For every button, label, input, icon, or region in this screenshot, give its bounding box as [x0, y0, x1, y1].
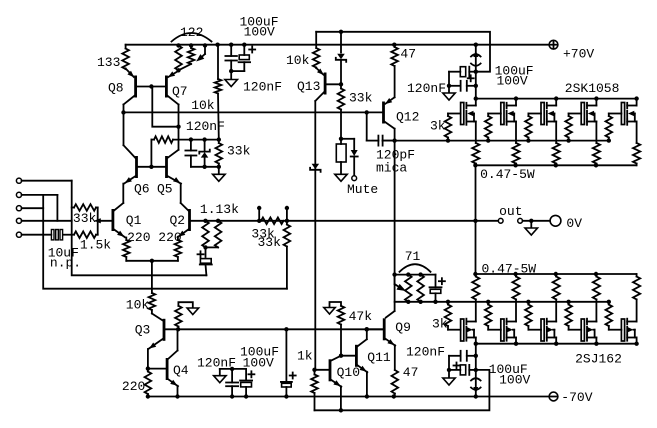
connector arrow +70V [473, 51, 478, 58]
test point stub B [286, 210, 288, 221]
svg-text:Q5: Q5 [157, 181, 173, 196]
svg-text:Mute: Mute [347, 182, 378, 197]
node -70V rail [474, 394, 478, 398]
wire J2 to base line [56, 195, 58, 221]
node Q10 emitter outer rail [339, 408, 343, 412]
node BL 120nF top [230, 367, 234, 371]
connector arrow -70V [473, 387, 478, 394]
wire bottom drain bus [476, 343, 637, 345]
input terminal J5 [16, 232, 21, 237]
svg-text:Q1: Q1 [126, 213, 142, 228]
resistor 3k gate top #3 [527, 114, 529, 117]
node bias gnd [217, 165, 221, 169]
node 10k bias top [215, 43, 219, 47]
svg-text:+70V: +70V [563, 47, 594, 62]
node Q11 collector [365, 327, 369, 331]
svg-text:3k: 3k [430, 119, 446, 134]
test point stub A [258, 210, 260, 221]
capacitor 10uF n.p. [51, 230, 54, 240]
node Q10 base [312, 368, 316, 372]
mosfet 2SJ162 #4 [581, 319, 584, 341]
resistor 10k tail [151, 261, 153, 293]
node fb 2 [216, 219, 220, 223]
wire bias line Q3-Q9 [165, 328, 383, 330]
transistor Q1 [112, 209, 115, 231]
transistor Q9 [383, 318, 386, 340]
svg-text:1k: 1k [297, 349, 313, 364]
wire TR bypass gnd link [448, 72, 450, 93]
wire output column [475, 165, 477, 274]
ground mute [340, 162, 342, 174]
node Q13 base [339, 82, 343, 86]
node fb 33k right [285, 219, 289, 223]
svg-text:Q3: Q3 [135, 323, 151, 338]
node 122 mid [189, 43, 193, 47]
capacitor 120pF [366, 112, 368, 140]
transistor Q12 [382, 102, 385, 124]
node TL bypass [229, 69, 233, 73]
node bias cap top2 [284, 327, 288, 331]
resistor 1.13k b [215, 221, 222, 248]
resistor 0.47-5W top #2 [512, 143, 519, 164]
capacitor 120nF BR [449, 355, 461, 357]
resistor 3k gate top #1 [447, 114, 449, 117]
ground BR bypass [443, 378, 455, 385]
resistor 0.47-5W bottom #2 [515, 274, 517, 277]
node gate bus bottom #4 [566, 300, 570, 304]
svg-text:10k: 10k [286, 53, 310, 68]
node mute [339, 137, 343, 141]
wire Q12 collector drop [394, 129, 396, 311]
node 71 r2 top [418, 272, 422, 276]
resistor 220 Q4 [147, 369, 149, 372]
transistor Q2 [188, 209, 191, 231]
node gate bus bottom #2 [486, 300, 490, 304]
wire pot right side [97, 208, 99, 235]
wire Q11 collector [366, 329, 368, 339]
node gate bus bottom #1 [446, 300, 450, 304]
wire TL bypass join [231, 70, 244, 72]
resistor 33k feedback series [261, 218, 284, 225]
node Q9 base [365, 327, 369, 331]
wire top +70V rail [126, 44, 550, 46]
input terminal J1 [16, 178, 21, 183]
node Q12 base pickoff [365, 110, 369, 114]
node drain bus #2 [514, 96, 518, 100]
svg-text:-70V: -70V [561, 390, 592, 405]
wire bias bottom [191, 166, 219, 168]
resistor 0.47-5W bottom #4 [595, 274, 597, 277]
node mirror sense [176, 125, 180, 129]
ground BL bypass [219, 369, 221, 376]
svg-text:n.p.: n.p. [50, 256, 81, 271]
out terminal b [518, 218, 523, 223]
transistor Q13 [324, 73, 327, 95]
resistor 71 pot element [405, 275, 412, 302]
node drain bus bottom #1 [474, 342, 478, 346]
node source bus bottom #2 [513, 272, 517, 276]
resistor 33k feedback shunt [286, 221, 288, 225]
node source bus bottom #4 [594, 272, 598, 276]
wire Q5 collector riser [178, 127, 180, 150]
wire base bias riser [150, 140, 152, 167]
svg-text:33k: 33k [73, 211, 97, 226]
wire Q12 base line [124, 111, 383, 113]
zener D4 collector line [312, 164, 320, 170]
mosfet 2SK1058 #4 [581, 103, 584, 125]
mosfet 2SK1058 #2 [501, 103, 504, 125]
node Q3 base [176, 327, 180, 331]
transistor Q10 [329, 359, 332, 381]
resistor 71 fixed [417, 275, 424, 302]
wire Q13 collector line [314, 101, 316, 370]
mosfet 2SK1058 #1 [461, 103, 464, 125]
node TR bypass [447, 84, 451, 88]
wire top drain bus [476, 98, 637, 100]
svg-text:220 220: 220 220 [127, 230, 182, 245]
node BL 100uF bottom [244, 394, 248, 398]
resistor 1.5k input [72, 234, 74, 236]
input terminal J2 [16, 192, 21, 197]
svg-text:10k: 10k [126, 298, 150, 313]
node 220 bottom [146, 394, 150, 398]
capacitor fb electrolytic [205, 247, 207, 257]
svg-text:10k: 10k [191, 98, 215, 113]
node source bus top #2 [513, 163, 517, 167]
svg-text:Q13: Q13 [297, 79, 320, 94]
svg-text:47: 47 [403, 365, 419, 380]
wire lower gate bus [395, 301, 610, 303]
wire Q8 collector [124, 96, 135, 105]
wire 1.13k join [206, 246, 219, 248]
node bias cap bottom [284, 394, 288, 398]
node Q4 emitter [175, 394, 179, 398]
svg-text:Q10: Q10 [337, 365, 360, 380]
node -70V bypass a [474, 354, 478, 358]
mosfet 2SJ162 #5 [621, 319, 624, 341]
wire input ground return lower [43, 195, 287, 289]
mute terminal [352, 176, 357, 181]
svg-text:47: 47 [400, 47, 416, 62]
wire BR bypass gnd link [448, 356, 450, 378]
node Q8 collector takeoff [121, 110, 125, 114]
resistor cascode base bias [154, 136, 173, 143]
node source bus top #3 [554, 163, 558, 167]
resistor 122 fixed [175, 46, 182, 71]
svg-text:out: out [499, 204, 522, 219]
node bias 10k bottom [217, 137, 221, 141]
wiper arrow input pot [94, 218, 101, 223]
node bias zener top [202, 137, 206, 141]
node 100uF TL top [242, 43, 246, 47]
resistor 3k gate top #5 [608, 114, 610, 117]
svg-text:Q8: Q8 [108, 81, 124, 96]
terminal +70V [549, 40, 558, 49]
node 47 top [392, 43, 396, 47]
node fb 1 [203, 219, 207, 223]
capacitor bias electrolytic [285, 329, 287, 382]
wiper arrow 71 [394, 275, 396, 284]
resistor 133 Q8 emitter [125, 45, 127, 49]
transistor Q7 [165, 76, 168, 98]
transistor Q8 [134, 76, 137, 98]
wire Q5 Q6 base tie [138, 166, 166, 168]
node +70V bypass a [474, 70, 478, 74]
wiper arrow 122 [204, 46, 206, 55]
resistor Q3 base bias [175, 306, 182, 327]
zener D1 bias [204, 140, 206, 151]
transistor Q3 [163, 319, 166, 341]
wire Q5 emitter to Q2 collector [180, 184, 182, 203]
resistor 33k Q13 base [340, 84, 342, 88]
wire Q7 Q8 base tie [137, 86, 165, 88]
resistor 3k gate bottom #4 [568, 302, 570, 305]
svg-text:2SK1058: 2SK1058 [565, 81, 620, 96]
resistor 47k [338, 306, 345, 325]
svg-text:Q6: Q6 [134, 181, 150, 196]
svg-text:0.47-5W: 0.47-5W [482, 262, 537, 277]
resistor 1.13k a [202, 221, 209, 248]
resistor 3k gate bottom #1 [447, 302, 449, 305]
capacitor 120nF BL [231, 369, 233, 383]
svg-text:1.13k: 1.13k [200, 202, 239, 217]
node BR bypass [447, 368, 451, 372]
svg-text:120nF: 120nF [197, 355, 236, 370]
terminal 0V [550, 215, 561, 226]
node out gnd [529, 219, 533, 223]
resistor 3k gate bottom #5 [608, 302, 610, 305]
capacitor 100uF BL [245, 369, 247, 380]
resistor 0.47-5W bottom #3 [555, 274, 557, 277]
transistor Q5 [165, 156, 168, 178]
node source bus top #4 [594, 163, 598, 167]
node Q12 collector gate bus [392, 138, 396, 142]
node drain bus #1 [474, 96, 478, 100]
resistor 3k gate bottom #2 [487, 302, 489, 305]
wire Q3 emitter [147, 349, 149, 369]
zener D2 rail reference [340, 32, 342, 53]
node gate bus top #5 [607, 138, 611, 142]
node +70V rail tap [474, 43, 478, 47]
wire mute feed [340, 112, 342, 144]
resistor 0.47-5W top #3 [553, 143, 560, 164]
svg-text:71: 71 [405, 249, 421, 264]
mosfet 2SJ162 #2 [501, 319, 504, 341]
transistor Q6 [135, 156, 138, 178]
wire -70V feed [475, 344, 477, 397]
ground TR bypass [443, 93, 455, 100]
svg-text:Q12: Q12 [396, 110, 419, 125]
capacitor 100uF TR [449, 71, 460, 73]
svg-text:33k: 33k [349, 91, 373, 106]
node gate bus top #2 [486, 138, 490, 142]
resistor 0.47-5W bottom #1 [475, 274, 477, 277]
node 122 wiper [203, 43, 207, 47]
svg-text:Q9: Q9 [395, 320, 411, 335]
capacitor 100uF BR [449, 369, 460, 371]
node bias bottom [202, 165, 206, 169]
capacitor 100uF TL [243, 45, 245, 55]
svg-text:33k: 33k [227, 144, 251, 159]
node drain bus bottom #3 [554, 342, 558, 346]
diode D3 mute [341, 138, 354, 140]
wire Q4 collector [177, 329, 179, 350]
svg-text:120nF: 120nF [243, 80, 282, 95]
node source bus top #1 [473, 163, 477, 167]
relay coil Mute [336, 144, 346, 162]
wire Q10 emitter [340, 386, 342, 410]
capacitor 71 electrolytic [435, 275, 437, 288]
wire Q11 emitter [366, 372, 368, 397]
resistor 122 trim element [188, 48, 195, 64]
svg-text:Q7: Q7 [172, 84, 188, 99]
wire Q6 emitter to Q1 collector [122, 184, 124, 203]
svg-text:220: 220 [122, 379, 145, 394]
wire upper VAS supply rail [316, 32, 490, 72]
resistor 0.47-5W top #1 [472, 143, 479, 164]
node 122 bottom [176, 68, 180, 72]
node Q7 Q8 bases [149, 84, 153, 88]
svg-text:Q2: Q2 [170, 213, 186, 228]
node drain bus #5 [634, 96, 638, 100]
resistor 33k input pot [74, 204, 96, 211]
resistor 33k bias [218, 140, 220, 143]
svg-text:120nF: 120nF [406, 345, 445, 360]
capacitor 120nF TL [230, 45, 232, 56]
svg-text:Q4: Q4 [173, 363, 189, 378]
mosfet 2SK1058 #3 [541, 103, 544, 125]
svg-text:1.5k: 1.5k [80, 237, 111, 252]
resistor 3k gate bottom #3 [527, 302, 529, 305]
node Q4 base [146, 366, 150, 370]
wire Q13 base [326, 83, 341, 85]
node 71 left [392, 272, 396, 276]
ground output [530, 221, 532, 228]
node output takeoff [473, 219, 477, 223]
wire Q1 base [98, 220, 112, 222]
resistor 3k gate top #2 [487, 114, 489, 117]
wire Q7 collector [168, 96, 179, 105]
svg-text:122: 122 [180, 25, 203, 40]
svg-text:mica: mica [376, 161, 407, 176]
svg-text:0V: 0V [566, 216, 582, 231]
wire feedback line [191, 220, 476, 222]
mosfet 2SJ162 #3 [541, 319, 544, 341]
node gate bus top #4 [566, 138, 570, 142]
svg-text:2SJ162: 2SJ162 [575, 352, 622, 367]
svg-text:120nF: 120nF [407, 81, 446, 96]
input terminal J4 [16, 218, 21, 223]
ground Q3 bias [178, 302, 192, 308]
svg-text:120nF: 120nF [186, 119, 225, 134]
resistor 47 Q9 emitter [394, 345, 396, 370]
brace 71 [400, 264, 431, 272]
ground 47k [330, 302, 342, 308]
node 71 r2 bottom [418, 300, 422, 304]
node 120nF TL top [229, 43, 233, 47]
resistor 10k Q13 [315, 32, 317, 48]
node gate bus top #3 [526, 138, 530, 142]
input terminal J3 [16, 206, 21, 211]
wire mirror base link [152, 87, 178, 127]
wire BL gnd line [220, 368, 246, 370]
node Q10 collector Q11 base [339, 354, 343, 358]
svg-text:33k: 33k [258, 235, 282, 250]
node drain bus bottom #4 [594, 342, 598, 346]
resistor 47 Q12 emitter [394, 45, 396, 47]
wire -70V outer rail [315, 370, 490, 410]
out terminal a [498, 218, 503, 223]
capacitor bias film [190, 140, 192, 151]
node -70V bypass b [474, 368, 478, 372]
node 1.13k bottom [203, 245, 207, 249]
node gate bus bottom #3 [526, 300, 530, 304]
wire -70V inner rail [148, 396, 549, 398]
svg-text:100V: 100V [243, 355, 274, 370]
node D2 rail [339, 30, 343, 34]
node +70V bypass b [474, 84, 478, 88]
resistor 1k [314, 370, 316, 375]
svg-text:133: 133 [97, 55, 120, 70]
resistor 0.47-5W bottom #5 [636, 274, 638, 277]
svg-text:100V: 100V [244, 25, 275, 40]
svg-text:100V: 100V [499, 373, 530, 388]
brace 122 [172, 33, 212, 42]
transistor Q11 [355, 345, 358, 367]
node drain bus bottom #2 [514, 342, 518, 346]
svg-text:Q11: Q11 [367, 350, 391, 365]
node fb 33k left [257, 219, 261, 223]
wire tail join [126, 260, 178, 262]
resistor 220 Q1 emitter [125, 238, 127, 241]
node drain bus #3 [554, 96, 558, 100]
wire top gate bus [383, 140, 609, 142]
node drain bus bottom #5 [634, 342, 638, 346]
wire input ground return upper [72, 181, 207, 276]
ground TL bypass [230, 71, 232, 79]
node tail [150, 259, 154, 263]
node gate bus bottom #5 [607, 300, 611, 304]
svg-text:0.47-5W: 0.47-5W [480, 167, 535, 182]
node 71 cap bottom [433, 300, 437, 304]
mosfet 2SK1058 #5 [621, 103, 624, 125]
node source bus bottom #1 [473, 272, 477, 276]
terminal -70V [549, 392, 558, 401]
svg-text:47k: 47k [349, 309, 373, 324]
resistor 0.47-5W top #4 [593, 143, 600, 164]
node Q5 Q6 bases [149, 165, 153, 169]
node gate bus top #1 [446, 138, 450, 142]
node 71 r1 top [406, 272, 410, 276]
wire top source bus [476, 164, 637, 166]
resistor 10k bias [217, 45, 219, 79]
ground bias network [218, 167, 220, 175]
resistor 220 Q2 emitter [177, 238, 179, 241]
wire bottom source bus [476, 273, 637, 275]
node 47 Q9 bottom [392, 394, 396, 398]
svg-text:100V: 100V [497, 74, 528, 89]
resistor 3k gate top #4 [568, 114, 570, 117]
node Q11 emitter [365, 394, 369, 398]
node drain bus #4 [594, 96, 598, 100]
node bias cap top [189, 137, 193, 141]
capacitor 120nF TR [449, 85, 461, 87]
node 122 left [176, 43, 180, 47]
node 71 r1 bottom [406, 300, 410, 304]
wire 71 top [395, 274, 436, 276]
resistor 0.47-5W top #5 [633, 143, 640, 164]
wire Q4 emitter [177, 386, 179, 397]
